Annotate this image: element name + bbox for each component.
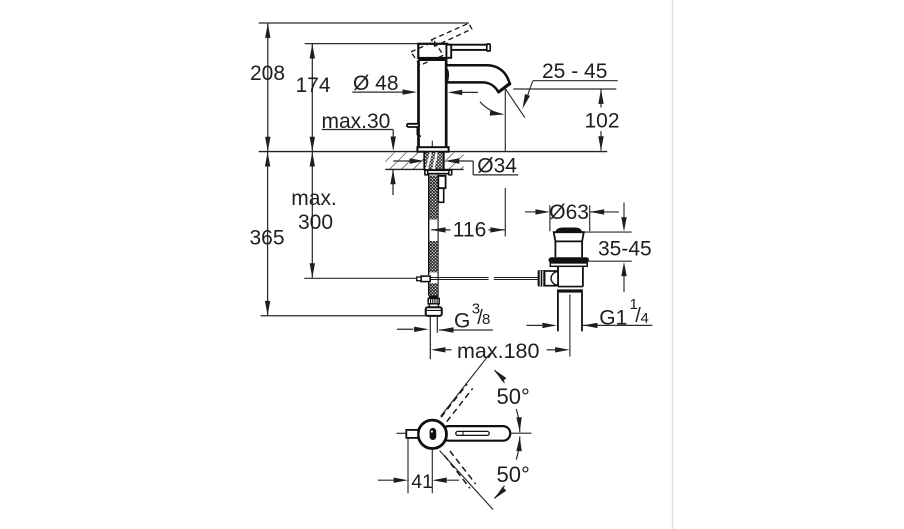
svg-text:8: 8	[482, 311, 490, 328]
svg-text:50°: 50°	[497, 384, 530, 409]
svg-text:116: 116	[453, 219, 486, 242]
svg-text:41: 41	[411, 471, 433, 493]
svg-text:300: 300	[298, 211, 333, 234]
svg-text:35-45: 35-45	[598, 237, 652, 260]
svg-text:174: 174	[296, 74, 331, 97]
svg-text:208: 208	[250, 62, 285, 85]
svg-text:Ø63: Ø63	[549, 201, 589, 224]
svg-text:102: 102	[585, 110, 620, 133]
svg-text:G: G	[454, 310, 470, 333]
svg-text:Ø34: Ø34	[477, 154, 517, 177]
svg-text:4: 4	[641, 310, 649, 327]
svg-text:max.: max.	[291, 187, 337, 210]
svg-text:50°: 50°	[497, 462, 530, 487]
svg-text:max.180: max.180	[457, 339, 540, 363]
svg-text:365: 365	[250, 227, 285, 250]
svg-text:G1: G1	[599, 306, 627, 329]
svg-text:25 - 45: 25 - 45	[542, 60, 607, 83]
